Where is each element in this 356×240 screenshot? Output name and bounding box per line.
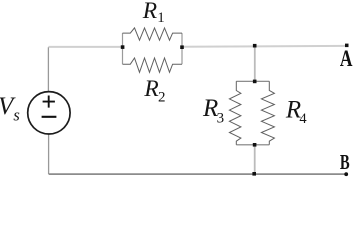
resistor R2 [123,58,183,72]
wire: R1R2 right bracket [181,33,183,64]
terminal A dot [345,44,349,48]
wire: vertical from top wire down to R3R4 top [254,46,256,81]
svg-text:4: 4 [299,111,307,127]
svg-text:1: 1 [157,10,165,26]
junction: R3R4 bottom [253,143,257,147]
voltage source minus sign [42,116,57,118]
junction: R1R2 left [121,45,125,49]
resistor R4 [261,81,274,145]
terminal B dot [344,172,348,176]
wire: vertical from R3R4 bottom to bottom wire [254,145,256,174]
svg-text:B: B [340,150,350,174]
junction: R3R4 top [253,80,257,84]
wire: bottom from source to terminal B [49,173,346,175]
junction: bottom wire at R3R4 branch [252,172,256,176]
junction: top wire at R3R4 branch [253,44,257,48]
svg-text:2: 2 [158,89,166,105]
svg-text:R: R [143,76,158,102]
junction: R1R2 right [180,45,184,49]
resistor R1 [123,28,183,40]
wire: R3R4 top bracket [236,80,269,82]
svg-text:s: s [13,105,19,124]
wire: R3R4 bottom bracket [236,144,269,146]
voltage source Vs circle [28,92,70,134]
svg-text:A: A [340,46,353,71]
voltage source plus sign [43,96,55,108]
wire: R1R2 left bracket [122,33,124,64]
wire: source bottom vertical [48,134,50,174]
wire: top from R1R2 block to terminal A [182,45,347,48]
wire: source top vertical [47,47,49,91]
svg-text:R: R [142,0,157,24]
resistor R3 [229,81,241,145]
svg-text:3: 3 [217,110,225,126]
wire: top from source to R1R2 block [48,46,122,48]
